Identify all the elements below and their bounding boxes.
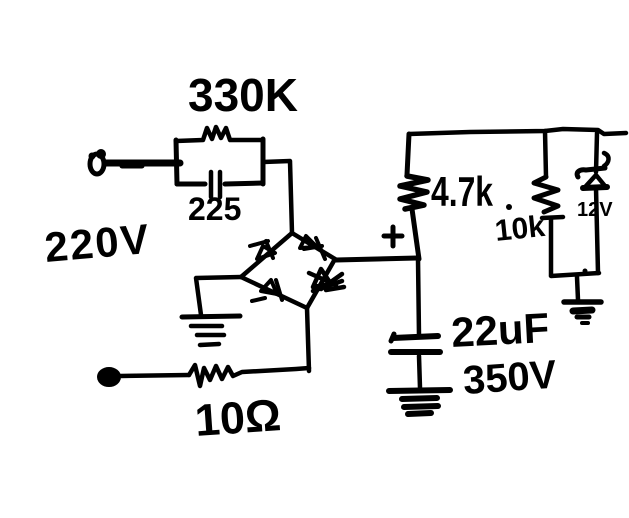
wire (10k bottom lead) [549,219,554,275]
ground (right, below zener) [564,302,601,323]
wire (right block bottom rail) [551,273,599,276]
wire (right block top rail) [409,129,626,134]
wire (top input lead) [106,163,180,166]
node + (positive output) [384,227,402,246]
wire (bridge left node to ground) [196,277,241,315]
svg-text:10Ω: 10Ω [193,389,282,446]
wire (box to bridge top) [263,161,292,233]
svg-text:225: 225 [188,191,241,227]
resistor R3 4.7k [400,176,428,209]
diode D2 [300,236,325,259]
wire (junction down to capacitor) [418,259,419,336]
node (bottom rail junction dot) [583,269,588,274]
wire (parallel box right side) [261,139,266,184]
diode D3 [252,280,282,301]
wire (bridge bottom node down) [307,308,309,371]
resistor R4 10k [534,177,563,218]
label 10k [493,204,547,248]
resistor R1 330K (top branch) [176,127,263,141]
terminal J1 (AC input top) [89,149,107,174]
bridge rectifier arm (top-left) [241,233,292,277]
svg-text:220V: 220V [43,215,153,271]
bridge rectifier arm (bottom-left) [241,277,307,308]
capacitor C2 bottom plate [391,349,440,355]
svg-text:330K: 330K [188,69,298,121]
bridge rectifier arm (bottom-right) [307,259,335,308]
svg-text:22uF: 22uF [450,304,550,356]
ground (below capacitor C2) [389,390,450,414]
wire (bottom rail to ground) [577,277,578,300]
wire (4.7k bottom lead to junction) [412,209,419,259]
ground (left, below bridge) [182,316,240,345]
wire (bottom lead from terminal) [120,375,189,376]
wire (parallel box left side) [176,140,177,184]
svg-text:10k: 10k [493,210,547,248]
wire (zener top lead) [596,133,597,172]
wire (bridge output + to junction) [336,258,417,260]
bridge rectifier arm (top-right) [292,233,335,259]
diode D1 [250,241,275,259]
wire (10k top lead) [545,131,546,177]
resistor R2 10 ohm [189,365,309,386]
wire (4.7k top lead) [407,134,409,175]
diode D4 [309,269,344,291]
svg-text:4.7k: 4.7k [431,168,493,215]
svg-text:350V: 350V [462,353,559,403]
capacitor C1 225 (bottom branch) [177,172,263,197]
wire (zener bottom lead) [596,188,598,273]
terminal J2 (AC input bottom) [99,369,119,385]
wire (capacitor to ground) [419,356,420,388]
diode Z1 zener 12V [577,153,608,188]
capacitor C2 22uF top plate [391,334,438,341]
